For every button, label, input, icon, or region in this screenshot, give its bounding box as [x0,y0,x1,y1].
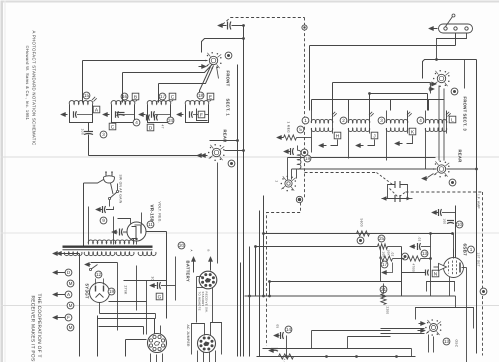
wire: det bottom [245,295,456,297]
wire: if top rail [310,45,456,47]
svg-text:2200: 2200 [386,307,390,315]
svg-text:A PHOTOFACT STANDARD NOTATION: A PHOTOFACT STANDARD NOTATION SCHEMATIC [32,31,37,146]
wire: bl5 [126,339,147,341]
label V1 [468,246,475,253]
svg-text:SECT. 1: SECT. 1 [226,99,231,117]
coil L2 rf [134,97,139,102]
capacitor C18 [432,210,437,214]
wire: bl3 [117,263,119,331]
terminal F [53,315,58,319]
transformer IF1 [311,119,333,123]
wire: B+ rail [264,233,453,235]
wire: bus C [249,247,251,357]
svg-text:1ST DET: 1ST DET [477,253,481,267]
svg-text:C: C [171,94,175,100]
terminal label f2 [67,324,74,331]
svg-text:6SB7: 6SB7 [463,244,468,257]
wire: bus D [255,247,257,297]
wire: g2 rotor drop [217,163,219,264]
label G5 [443,338,450,345]
capacitor C9 [96,207,101,211]
svg-text:M: M [69,281,73,286]
resistor R6 [378,244,388,249]
wire: L1 top [82,61,84,103]
svg-text:4: 4 [135,120,138,125]
svg-text:E: E [209,94,212,100]
label IF1 [302,117,309,124]
svg-text:A 4B: A 4B [283,359,286,362]
svg-text:18: 18 [198,93,204,98]
wire: if2 sec [369,111,371,129]
capacitor C17 [425,270,427,276]
svg-text:THE COOPERATION OF T: THE COOPERATION OF T [36,294,42,358]
label L1 [83,92,90,99]
wire: 5y3 leads [109,301,147,303]
svg-text:AC JUMPER: AC JUMPER [186,325,190,348]
wire: bottom rail 1 [263,348,412,350]
capacitor C10 [112,230,117,234]
capacitor C21 C22 padders [388,185,395,199]
capacitor C23 [269,348,274,352]
switch SW2 [91,262,118,264]
wire: L3 top [158,84,160,103]
transformer T1 sec4 [138,252,156,256]
junction det [402,253,409,260]
switch SW1 [110,192,118,199]
pot wiper arrow [382,270,387,274]
svg-text:D: D [149,125,153,131]
svg-text:SW ON AF GAIN: SW ON AF GAIN [119,175,123,204]
wire: grid lead 2 [123,64,213,73]
transformer IF4 [425,119,447,123]
svg-text:N: N [434,271,438,277]
wire: bus A [243,26,245,357]
wire: if3 sec [407,111,409,129]
wire: bl2 [97,316,99,357]
svg-text:24: 24 [168,118,174,123]
label L3 [159,93,166,100]
wire: det box [270,281,402,283]
shield label G2 [228,160,235,167]
wire: g4 feeds [292,168,437,170]
coil L4 osc [208,97,213,102]
terminal strip TS1 [439,24,473,33]
svg-text:FRONT: FRONT [226,71,231,87]
svg-text:47000: 47000 [412,264,416,274]
resistor R5 [357,231,370,236]
capacitor C20 [150,283,155,287]
wire: det plumbing [311,331,313,349]
wire: trap box [416,308,474,329]
svg-text:STANDBY: STANDBY [201,292,205,307]
transformer T1 sec2 [84,252,115,256]
svg-text:BATTERY: BATTERY [186,261,191,282]
svg-text:L: L [451,117,454,123]
label T1 [178,242,185,249]
svg-text:12: 12 [96,272,102,277]
label C2 [100,131,107,138]
terminal A [53,292,58,296]
tube arrow [439,263,447,270]
tube V1 6SB7 [444,258,464,278]
capacitor C4 below L2 [117,112,125,114]
wire: if rail top [312,99,445,101]
gang G1 arrow [202,64,207,68]
wire: det drop [430,234,432,296]
svg-text:VOLT. REG.: VOLT. REG. [158,202,162,223]
svg-text:I.F. AMP: I.F. AMP [477,195,481,209]
svg-text:A: A [190,250,194,252]
label L2 [121,93,128,100]
wire: x2 staple right [211,323,222,355]
svg-text:F: F [200,112,203,118]
antenna arrow [218,23,223,27]
label on dashed [480,288,487,295]
label IF4b [449,116,456,123]
svg-text:19: 19 [305,156,311,161]
svg-text:3: 3 [380,118,383,123]
wire: c18 drop [453,234,455,258]
tuning gang G1 front [209,56,217,64]
svg-text:19: 19 [109,289,115,294]
wire: gang pigtails [200,67,211,100]
strip arrow [429,26,434,30]
potentiometer R7 [380,256,393,261]
svg-text:11: 11 [148,222,153,227]
svg-text:H: H [336,133,340,139]
svg-text:OSC: OSC [455,340,459,348]
label V5 [95,271,102,278]
svg-text:17: 17 [160,94,166,99]
terminal label d2 [67,280,74,287]
transformer T1 core [63,245,153,247]
AC interlock plug [104,176,115,183]
label C9 [100,217,107,224]
wire: g2 to busA [225,150,244,152]
wire: x3 pins [191,257,195,262]
wire: plug drop [84,180,104,184]
svg-text:17: 17 [382,262,388,267]
wire: bl7 [154,319,156,335]
svg-text:M: M [69,325,73,330]
wire: dashed bus jog [267,203,301,346]
wire: dashed gang linkage [305,172,377,174]
potentiometer box [380,247,382,282]
svg-text:9: 9 [102,218,105,223]
svg-text:REAR: REAR [458,150,463,163]
wire: gang3 box [423,60,477,79]
resistor R1 [277,135,282,139]
wire: x1 pins [150,354,152,362]
svg-text:25: 25 [379,236,385,241]
svg-text:15: 15 [84,93,90,98]
svg-text:13: 13 [444,339,450,344]
socket X1 [148,334,167,353]
junction dial bus 2 [296,196,302,202]
transformer T1 sec1 [64,252,82,256]
svg-text:SECT. 3: SECT. 3 [463,114,468,132]
svg-text:FRONT: FRONT [463,97,468,113]
svg-text:F: F [67,315,70,320]
svg-text:1: 1 [304,118,307,123]
wire: primary ends [88,207,90,245]
capacitor C6 C7 below L3 [146,115,148,121]
oscillator trimmer [285,180,292,187]
wire: dashed bus top [223,18,305,25]
lamp on dashed bus [301,149,308,156]
svg-text:270K: 270K [124,286,128,296]
transformer T1 sec3 [116,252,134,256]
svg-text:13: 13 [422,251,428,256]
capacitor C11 [284,149,289,153]
wire: bl4 [99,326,144,328]
wire: if lower rail [288,157,436,159]
wire: grid lead 1 [83,60,208,62]
capacitor C24 [274,333,279,337]
wire: if1 sec [332,111,334,129]
svg-text:05: 05 [276,325,280,329]
wire: busB elbow [210,140,238,142]
capacitor C16 [410,244,415,248]
tube V4 VR-150 [127,222,146,241]
label R7 [381,261,388,268]
wire: if rail3 [370,93,428,95]
label C5 [169,93,176,100]
label IF4 [417,117,424,124]
gang G2 arrow [197,153,202,157]
wire: vr to rail [146,231,167,233]
wire: g5 wires [381,328,425,330]
coil L3 rf [170,97,175,102]
svg-text:RECEIVE SW.: RECEIVE SW. [205,292,209,313]
svg-text:47: 47 [161,125,165,129]
label C20 [156,293,163,300]
svg-text:G: G [158,294,162,300]
resistor R9 [380,286,387,293]
capacitor C19 [447,220,454,222]
svg-text:14: 14 [286,327,292,332]
label V5b [108,288,115,295]
wire: bus G [269,282,271,297]
label L5 [304,155,311,162]
tube V5 5Y3GT [90,283,110,303]
label IF3b [409,128,416,135]
svg-text:1: 1 [470,247,473,252]
tuning gang G4 rear [437,165,445,173]
wire: bus F [263,196,265,297]
svg-text:10K: 10K [387,250,391,256]
svg-text:RECEIVER MAKES IT POSSIB: RECEIVER MAKES IT POSSIB [30,296,36,362]
wire: grid lead 3 [159,66,214,84]
wire: x2 pins [197,351,199,362]
trimmer box L4 [197,109,208,121]
capacitor C-ant [227,22,229,30]
wire: br box [427,282,455,292]
svg-text:5: 5 [299,127,302,132]
wire: bl8 [146,281,148,335]
shield label G3 [451,88,458,95]
transformer IF2 [348,119,370,123]
svg-text:100: 100 [81,129,85,136]
svg-text:10: 10 [457,222,463,227]
svg-text:2: 2 [275,181,279,183]
wire: bottom rail 2 [257,356,416,358]
switch lever [446,17,453,27]
label C1 [93,106,100,113]
svg-text:VR-150: VR-150 [150,205,155,222]
label R1 [297,126,304,133]
label C3 [132,93,139,100]
wire: if rail2 [333,82,431,84]
oscillator coil L5 [298,150,301,169]
socket X3 battery [199,271,217,289]
socket X2 AC jumper [198,335,216,353]
svg-text:2: 2 [342,118,345,123]
label IF1b [334,132,341,139]
shield label G1 [225,52,232,59]
svg-text:M: M [69,303,73,308]
label IF3 [378,117,385,124]
transformer T1 primary [88,240,134,244]
coil L1 antenna [92,97,97,102]
svg-text:5Y3GT: 5Y3GT [85,284,90,299]
svg-text:TO REMOTE: TO REMOTE [198,292,202,311]
transformer IF3 [386,119,408,123]
svg-text:C: C [111,124,115,130]
label C8 [207,93,214,100]
shield label G4 [449,179,456,186]
wire: bus E [259,211,261,357]
wire: bus B [237,65,239,357]
wire: strip drop right [437,34,467,60]
wire: gang1 box [202,39,244,53]
svg-text:B: B [207,250,211,252]
wire: L2 top [122,73,124,103]
capacitor C2 below L1 [84,131,93,133]
tuning gang G2 rear [212,148,220,156]
wire: bl6 [136,266,138,311]
terminal arrow a [53,251,58,255]
wire: antenna to bus [232,25,244,27]
junction dial bus [302,25,307,30]
wire: x2 staple left [192,324,205,355]
wire: br junction [382,295,385,298]
label L4 [197,92,204,99]
wire: avc rail [256,246,378,248]
resistor R10 [279,354,294,359]
wire: bus B2 [240,263,242,357]
terminal D [53,270,58,274]
svg-text:3: 3 [102,132,105,137]
label IF2 [340,117,347,124]
svg-text:B: B [134,94,137,100]
wire: right bus [476,60,478,354]
svg-text:4: 4 [419,118,422,123]
wire: gang3 pigtails [438,86,440,161]
svg-text:.02: .02 [418,237,422,242]
wire: bl1 [79,254,81,357]
svg-text:20: 20 [179,243,185,248]
arrow sec left [57,251,62,255]
gang G4 arrow [422,176,427,180]
tuning gang G3 front [437,74,445,82]
label IF2b [371,132,378,139]
svg-text:5600: 5600 [360,219,364,227]
tuning gang G5 [430,324,438,332]
svg-text:©Howard W. Sams & Co., Inc. 19: ©Howard W. Sams & Co., Inc. 1951 [25,46,30,121]
resistor R8 [408,256,421,261]
label V4 [147,221,154,228]
gang G5 arrows [421,328,426,332]
terminal label a2 [67,302,74,309]
svg-text:30: 30 [151,277,155,281]
wire: if4 sec [446,111,448,129]
svg-text:1 MEG: 1 MEG [287,122,291,134]
svg-text:100: 100 [443,219,447,225]
wire: rear gang lead [89,155,207,157]
gang G3 arrows [432,82,437,86]
